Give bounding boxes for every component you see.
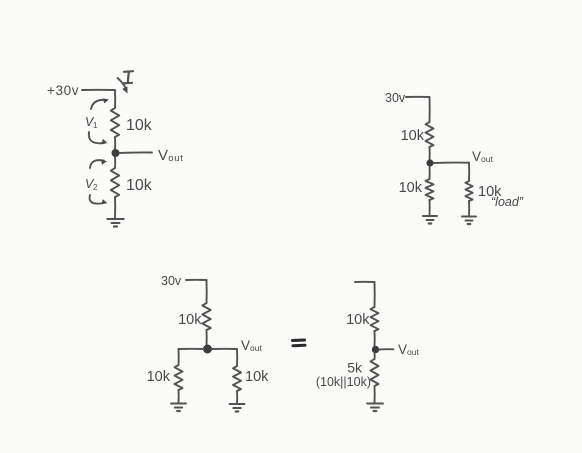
label Vout	[158, 147, 184, 164]
arrow V1 upper	[91, 99, 109, 110]
wire R2 to ground	[114, 197, 116, 219]
svg-text:“load”: “load”	[491, 195, 524, 209]
wire top stub (circuit 4)	[355, 282, 375, 307]
label 30v (circuit 3)	[161, 274, 182, 288]
wire to ground left (circuit 2)	[429, 200, 431, 216]
equals sign	[293, 340, 306, 346]
svg-text:2: 2	[93, 183, 98, 192]
svg-text:V: V	[472, 149, 481, 164]
label 10k (R1)	[126, 117, 153, 134]
svg-text:V: V	[158, 147, 168, 164]
svg-text:V: V	[398, 342, 407, 357]
arrow V2 lower	[90, 195, 108, 204]
arrow V1 lower	[89, 132, 108, 144]
label 10k lower (circuit 2)	[399, 180, 423, 196]
node Vout junction	[112, 149, 120, 157]
wire node to Vout (circuit 4)	[380, 348, 394, 350]
wire 30v to corner (circuit 3)	[186, 280, 207, 303]
ground left (circuit 2)	[423, 216, 437, 224]
resistor 10k left (circuit 3)	[175, 365, 183, 390]
label 30v (circuit 2)	[385, 91, 406, 105]
svg-text:30v: 30v	[385, 91, 406, 105]
wire node down (circuit 2)	[429, 167, 431, 180]
svg-text:10k: 10k	[245, 369, 269, 385]
wire 30v to corner (circuit 2)	[406, 97, 430, 122]
resistor 10k upper (circuit 3)	[202, 303, 210, 330]
wire node to Vout	[120, 151, 153, 154]
svg-text:10k: 10k	[178, 312, 202, 328]
label 10k (circuit 4)	[346, 312, 370, 328]
label V1	[85, 115, 98, 130]
node (circuit 2)	[426, 159, 433, 166]
wire to ground (circuit 4)	[374, 386, 376, 403]
resistor 5k (circuit 4)	[371, 359, 379, 386]
resistor 10k upper (circuit 2)	[426, 122, 434, 147]
svg-text:10k: 10k	[401, 128, 425, 144]
wire node to load branch	[434, 162, 470, 164]
wire left branch down (circuit 3)	[178, 349, 180, 365]
ground left (circuit 3)	[171, 404, 186, 412]
label 10k right (circuit 3)	[245, 369, 269, 385]
svg-text:30v: 30v	[161, 274, 182, 288]
ground right (circuit 2)	[462, 217, 476, 225]
wire to node (circuit 2)	[429, 147, 431, 160]
resistor R1 10k upper	[111, 108, 119, 137]
svg-text:10k: 10k	[126, 177, 153, 194]
wire load to ground	[468, 201, 470, 216]
svg-text:out: out	[481, 154, 493, 164]
ground (circuit 1)	[107, 219, 124, 227]
svg-text:(10k||10k): (10k||10k)	[316, 375, 371, 389]
svg-text:1: 1	[93, 121, 98, 130]
current arrow I	[118, 78, 128, 94]
wire +30v to top corner	[82, 90, 115, 108]
svg-text:out: out	[168, 153, 183, 164]
svg-text:V: V	[241, 338, 250, 353]
ground (circuit 4)	[367, 404, 383, 412]
svg-text:10k: 10k	[147, 369, 171, 385]
wire R1 to node	[114, 137, 116, 150]
label 10k (R2)	[126, 177, 153, 194]
wire to node (circuit 4)	[374, 331, 376, 346]
wire load branch down	[468, 163, 470, 181]
label "load"	[491, 195, 524, 209]
svg-text:+30v: +30v	[47, 83, 79, 98]
wire node to R2 (circuit 4)	[374, 353, 376, 359]
wire node horizontal (circuit 3)	[179, 348, 238, 350]
label I	[123, 71, 133, 83]
label (10k||10k)	[316, 375, 371, 389]
wire right to ground (circuit 3)	[236, 391, 238, 404]
resistor R2 10k lower	[111, 168, 119, 197]
svg-text:10k: 10k	[399, 180, 423, 196]
svg-text:out: out	[250, 343, 262, 353]
svg-text:10k: 10k	[126, 117, 153, 134]
label V2	[85, 177, 98, 192]
wire node to R2	[114, 157, 116, 168]
label Vout (circuit 3)	[241, 338, 262, 353]
svg-text:5k: 5k	[347, 360, 363, 376]
label 10k left (circuit 3)	[147, 369, 171, 385]
resistor 10k right (circuit 3)	[233, 366, 241, 391]
label 10k upper (circuit 2)	[401, 128, 425, 144]
svg-text:10k: 10k	[346, 312, 370, 328]
wire to node (circuit 3)	[206, 330, 208, 346]
label 5k	[347, 360, 363, 376]
arrow V2 upper	[90, 160, 107, 168]
node (circuit 3)	[203, 345, 212, 354]
resistor 10k lower (circuit 2)	[426, 179, 434, 200]
label Vout (circuit 2)	[472, 149, 493, 164]
resistor 10k load	[465, 181, 472, 201]
resistor 10k (circuit 4)	[371, 307, 379, 331]
node (circuit 4)	[372, 346, 379, 353]
label 10k load	[478, 184, 502, 200]
wire right branch down (circuit 3)	[236, 349, 238, 366]
label Vout (circuit 4)	[398, 342, 419, 357]
ground right (circuit 3)	[230, 404, 245, 412]
svg-text:out: out	[407, 347, 419, 357]
wire left to ground (circuit 3)	[178, 390, 180, 403]
label +30v supply	[47, 83, 79, 98]
label 10k upper (circuit 3)	[178, 312, 202, 328]
